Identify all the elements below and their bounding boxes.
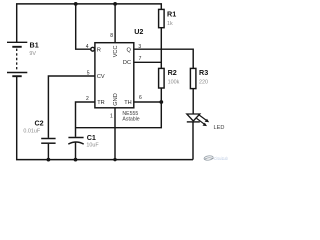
wire R3 bottom to LED anode [192, 89, 194, 114]
wire VCC top rail (battery + to R1 top) [17, 4, 162, 42]
svg-text:R1: R1 [167, 9, 176, 18]
node junction top rail / reset [74, 2, 78, 6]
svg-text:R: R [97, 47, 101, 53]
svg-text:TH: TH [124, 100, 131, 106]
svg-text:8: 8 [110, 33, 113, 39]
svg-text:R3: R3 [199, 68, 208, 77]
node threshold junction [159, 100, 163, 104]
wire C1 bottom to ground rail [75, 142, 77, 159]
wire C2 bottom to ground rail [47, 144, 49, 160]
node junction top rail / pin 8 [113, 2, 117, 6]
LED emission arrow 1 [199, 115, 207, 121]
svg-text:10uF: 10uF [86, 143, 99, 149]
svg-text:C1: C1 [87, 133, 96, 142]
wire control voltage pin 5 to C2 top [48, 76, 95, 138]
capacitor C2 0.01uF [23, 118, 55, 143]
svg-text:9V: 9V [29, 51, 36, 57]
LED diode symbol [187, 114, 225, 131]
wire VCC pin 8 to top rail [114, 4, 116, 43]
svg-text:1: 1 [110, 114, 113, 120]
svg-text:220: 220 [199, 79, 208, 85]
svg-text:DC: DC [123, 60, 131, 66]
svg-text:100k: 100k [168, 79, 180, 85]
wire reset pin 4 to top rail [76, 4, 91, 49]
svg-text:TR: TR [97, 100, 104, 106]
wire threshold pin 6 [134, 101, 162, 103]
svg-text:Q: Q [127, 47, 132, 53]
wire R2 bottom to threshold node [160, 88, 162, 102]
svg-text:C2: C2 [34, 118, 43, 127]
svg-text:CircuitLab: CircuitLab [214, 156, 228, 161]
svg-text:1k: 1k [167, 21, 173, 27]
svg-text:2: 2 [86, 96, 89, 102]
capacitor C1 10uF polarized [68, 133, 99, 149]
svg-text:U2: U2 [134, 27, 143, 36]
wire trigger pin 2 to C1 top [76, 102, 95, 137]
IC U2 NE555 timer [86, 27, 144, 122]
node C1 ground junction [74, 158, 78, 162]
battery B1 9V [7, 41, 39, 77]
wire GND pin 1 to ground rail [114, 108, 116, 160]
resistor R3 220 [190, 68, 208, 89]
svg-text:R2: R2 [168, 68, 177, 77]
wire output pin 3 to R3 top [134, 49, 193, 68]
svg-text:B1: B1 [30, 41, 39, 50]
svg-text:6: 6 [139, 95, 142, 101]
svg-text:4: 4 [86, 44, 89, 50]
resistor R1 1k [159, 9, 177, 27]
LED emission arrow 2 [197, 118, 205, 124]
resistor R2 100k [159, 68, 180, 88]
wire battery - down to ground rail, ground rail to LED [17, 77, 193, 160]
svg-text:0.01uF: 0.01uF [23, 128, 40, 134]
svg-text:GND: GND [113, 93, 119, 105]
node C2 ground junction [47, 158, 51, 162]
wire threshold to trigger link [76, 102, 162, 128]
svg-text:7: 7 [139, 56, 142, 62]
svg-text:LED: LED [214, 125, 225, 131]
CircuitLab watermark [204, 155, 228, 161]
node pin 1 ground junction [113, 158, 116, 161]
svg-text:VCC: VCC [113, 45, 119, 57]
svg-text:Astable: Astable [122, 117, 139, 123]
svg-text:CV: CV [97, 74, 105, 80]
wire LED cathode to ground rail [192, 122, 194, 159]
wire R1 bottom to R2 top [160, 28, 162, 69]
wire discharge pin 7 to R1/R2 junction [134, 61, 162, 63]
